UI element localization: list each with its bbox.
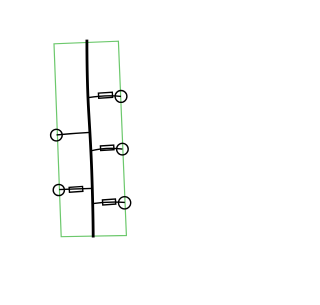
lamp L1 (circle terminal) xyxy=(115,91,127,103)
wire loop (green outer boundary) xyxy=(54,41,126,237)
lamp L5 (left-bottom circle terminal) xyxy=(53,184,64,195)
bus wire (thick vertical) xyxy=(87,40,93,238)
wire (bus through R2 to lamp L2 center) xyxy=(90,148,122,151)
lamp L2 (circle terminal) xyxy=(117,143,129,155)
wire (bus through R1 to lamp L1 center) xyxy=(89,96,121,98)
lamp L4 (left circle terminal) xyxy=(51,129,63,141)
resistor R2 xyxy=(100,145,114,150)
wire (bus through R3 to lamp L3 center) xyxy=(92,202,125,204)
wire (lamp L5 center through R4 to bus) xyxy=(59,188,91,189)
resistor R3 xyxy=(102,199,115,205)
resistor R1 xyxy=(98,92,112,98)
resistor R4 xyxy=(69,186,83,192)
wire (lamp L4 center to bus) xyxy=(57,132,90,135)
lamp L3 (circle terminal) xyxy=(119,197,131,209)
